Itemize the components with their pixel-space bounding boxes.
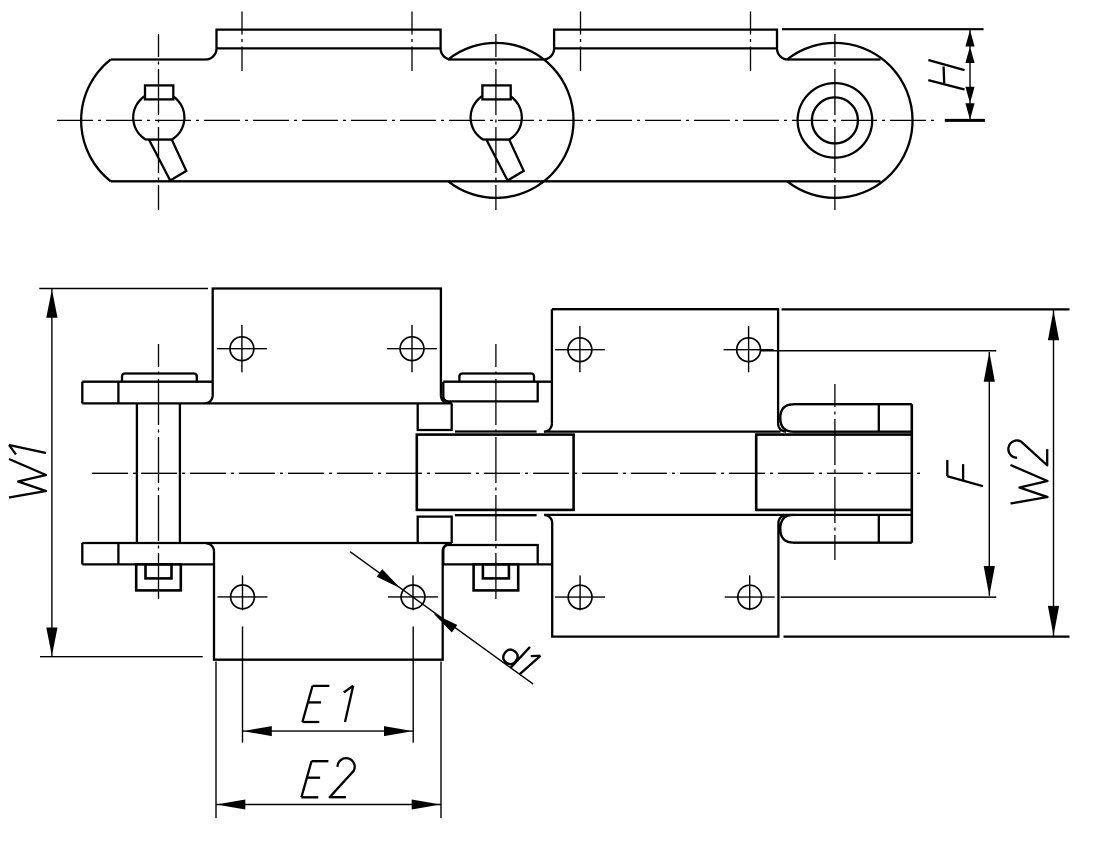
cotter pin at P2 (plan, inner rect) <box>483 564 509 578</box>
inner plate divider at P3 (lower) <box>878 515 880 543</box>
plate top chord over roller R3 <box>788 58 881 60</box>
dimension W1 arrow line <box>51 289 53 656</box>
fillet lower-right of tab K1 upper <box>441 395 449 403</box>
pin P1 centerline (plan) <box>158 344 160 603</box>
dimension W2 arrow line <box>1053 310 1055 636</box>
plate top chord over roller R2 <box>448 58 543 60</box>
pin P3 centerline (plan) <box>834 384 836 560</box>
pin P2 centerline (plan) <box>495 344 497 603</box>
plate inner face / attachment bend line (lower) <box>82 542 452 544</box>
dimension F extension line top <box>761 350 997 352</box>
weld fillet right of attachment strip A1 <box>441 49 452 60</box>
cotter pin bent leg at pin P2 <box>486 140 523 181</box>
inner plate end block at P2 (upper) <box>418 403 452 430</box>
outer plate end block at P2 (upper) <box>443 382 537 402</box>
attachment strip A1 cross-section (left edge, top, right edge, bottom) <box>217 30 441 49</box>
inner plate end block at P2 (lower) <box>418 517 452 543</box>
dimension W1 arrowheads <box>46 289 57 318</box>
vertical centerline pin P1 (top view) <box>158 34 160 210</box>
dimension E2 arrowheads <box>216 800 245 810</box>
attachment bolt hole centerline x=580.5 (top view) <box>580 12 582 72</box>
chain link plate left rounded end (roller R1 outline) <box>81 60 111 182</box>
dimension label F (rotated) <box>947 460 983 486</box>
outer plate left end edge (lower) <box>81 543 83 564</box>
dimension H extension line (top of attachment extended) <box>782 28 984 30</box>
dimension W1 extension line bottom <box>40 656 203 658</box>
cotter pin bent leg at pin P1 <box>149 140 186 181</box>
dimension F arrow line <box>988 352 990 596</box>
outer plate outer face line at P2 (lower) <box>443 563 551 565</box>
pin P1 end circle (T-head pin, flat bottom) <box>133 92 184 140</box>
leader d1 arrowhead upper (pointing at hole) <box>377 569 404 592</box>
attachment bolt hole centerline x=242 (top view) <box>241 12 243 72</box>
dimension label W1 (rotated) <box>9 445 46 498</box>
bolt hole K1 upper left <box>230 337 254 361</box>
attachment bolt hole centerline x=412 (top view) <box>411 12 413 72</box>
fillet upper-left of tab K1 lower <box>206 543 214 551</box>
outer plate outer face line (lower left) <box>82 563 214 565</box>
T-head washer cap at pin P1 (upper, plan) <box>122 374 197 383</box>
dimension H arrow line <box>969 30 971 120</box>
cotter pin at P1 (plan, inner rect) <box>146 564 172 578</box>
right attachment K2 left edge (upper) <box>551 309 553 423</box>
bolt hole K2 lower right <box>738 585 762 609</box>
weld fillet left of attachment strip A2 <box>543 49 554 60</box>
plate end / roller right edge at P3 <box>910 404 913 543</box>
bolt hole K2 lower left <box>568 585 592 609</box>
link plate bottom edge <box>111 180 881 182</box>
dimension label d1 (rotated along leader) <box>500 637 541 678</box>
outer plate end block at P2 (lower) <box>443 545 537 564</box>
dimension label H (rotated) <box>928 60 964 90</box>
chain horizontal centerline (plan view) <box>92 472 922 474</box>
bolt hole K2 upper right <box>737 338 761 362</box>
inner plate band bottom edge at P3 <box>793 542 912 544</box>
outer plate left end edge (upper) <box>81 382 83 404</box>
fillet upper-left of tab K2 lower <box>544 515 552 523</box>
leader line for hole diameter d1 <box>350 552 533 684</box>
vertical centerline pin P2 (top view) <box>495 34 497 210</box>
dimension F extension line bottom <box>781 596 997 598</box>
cotter pin at P2 (plan, outer rect) <box>474 564 519 590</box>
cotter pin head at pin P1 <box>145 85 173 99</box>
dimension W2 extension line top <box>782 308 1070 310</box>
attachment web edge left of pin P1 (lower) <box>117 543 119 564</box>
attachment bolt hole centerline x=750.5 (top view) <box>750 12 752 72</box>
cotter pin head at pin P2 <box>482 85 510 99</box>
bolt hole K1 upper right <box>400 337 424 361</box>
roller R3 (plan view rectangle) <box>756 435 912 510</box>
inner plate divider at P3 (upper) <box>878 404 880 432</box>
bolt hole K2 upper left <box>568 338 592 362</box>
dimension E1 extension line left <box>242 627 244 743</box>
bushing lip at P2 (lower) <box>455 514 537 516</box>
leader d1 arrowhead lower (pointing at hole) <box>431 610 458 633</box>
bolt hole K1 lower right <box>401 585 425 609</box>
left attachment plate K1 bent tab (upper) <box>213 289 441 396</box>
dimension label E1 <box>302 686 312 722</box>
weld fillet right of attachment strip A2 <box>777 49 788 60</box>
attachment web edge left of pin P1 (upper) <box>117 382 119 404</box>
dimension E2 extension line right <box>440 662 442 819</box>
fillet lower-left of tab K2 upper <box>544 424 552 432</box>
dimension E2 arrow line <box>216 804 440 806</box>
roller R2 (visible arc around pin P2) <box>448 43 573 198</box>
fillet upper-right of tab K1 lower <box>443 543 451 551</box>
dimension W1 extension line top <box>39 288 208 290</box>
attachment K2 bend line (upper) <box>544 430 781 432</box>
left attachment plate K1 bent tab (lower) <box>214 551 443 659</box>
pin P2 end circle (T-head pin, flat bottom) <box>471 92 522 140</box>
horizontal centerline of chain (top view) <box>57 119 939 121</box>
vertical centerline pin P3 (top view) <box>834 34 836 210</box>
link plate top edge (left of attachment A1) <box>111 58 206 60</box>
dimension label W2 (rotated) <box>1008 441 1047 504</box>
right attachment plate K2 bent tab (upper) <box>552 309 778 423</box>
dimension E1 extension line right <box>412 627 414 743</box>
T-head washer cap at pin P2 (upper, plan) <box>459 374 534 383</box>
inner plate crank S-curve at P3 (upper) <box>780 404 793 431</box>
dimension W2 extension line bottom <box>784 635 1070 637</box>
bushing/inner plate line at P3 (upper) <box>793 431 911 433</box>
pin circle at pin P3 <box>812 97 858 143</box>
dimension E1 arrowheads <box>243 726 272 736</box>
outer plate outer face line at P2 (upper) <box>443 381 551 383</box>
roller R2 (plan view rectangle) <box>417 435 574 510</box>
dimension E2 extension line left <box>215 662 217 819</box>
bolt hole K1 lower left <box>231 585 255 609</box>
inner plate crank S-curve at P3 (lower) <box>780 515 793 543</box>
pin P1 shaft side lines <box>136 403 138 543</box>
bushing lip at P2 (upper) <box>455 430 537 432</box>
right attachment plate K2 bent tab (lower) <box>552 523 778 637</box>
dimension W2 arrowheads <box>1048 310 1059 340</box>
fillet upper-right of tab K2 lower <box>778 515 786 523</box>
dimension H reference tick at centerline <box>945 119 985 122</box>
outer plate outer face line (upper left) <box>82 381 213 383</box>
fillet lower-left of tab K1 upper <box>205 395 213 403</box>
roller R3 (visible arc around pin P3) <box>787 43 912 198</box>
cotter pin at P1 (plan, outer rect) <box>136 564 181 590</box>
weld fillet left of attachment strip A1 <box>206 49 217 60</box>
attachment K2 bend line (lower) and bushing line at P3 <box>544 514 912 516</box>
dimension F arrowheads <box>984 352 995 382</box>
bushing circle at pin P3 <box>798 83 873 158</box>
dimension E1 arrow line <box>243 730 413 732</box>
fillet lower-right of tab K2 upper <box>778 424 786 432</box>
dimension label E2 <box>301 761 311 797</box>
attachment strip A2 cross-section <box>554 30 777 49</box>
plate inner face / attachment bend line (upper) <box>82 402 452 404</box>
dimension H arrowheads <box>965 30 974 47</box>
inner plate band top edge at P3 <box>793 403 912 405</box>
